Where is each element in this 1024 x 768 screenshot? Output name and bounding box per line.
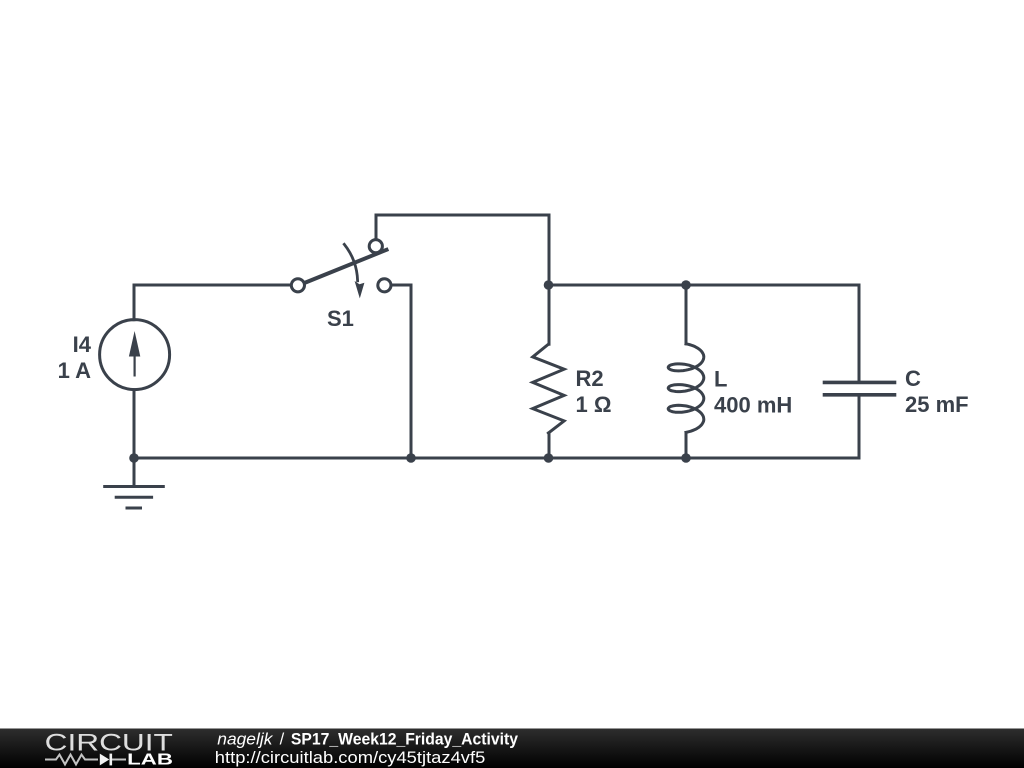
- junction node L bottom: [681, 453, 691, 463]
- junction node switch branch bottom: [406, 453, 416, 463]
- svg-text:/: /: [280, 731, 285, 749]
- logo diode: [100, 754, 110, 766]
- svg-text:S1: S1: [327, 306, 354, 331]
- ground symbol: [105, 458, 164, 508]
- svg-text:I4: I4: [73, 332, 92, 357]
- wire L top stub: [685, 285, 688, 344]
- wire R2 bottom stub: [548, 433, 551, 458]
- svg-text:http://circuitlab.com/cy45tjta: http://circuitlab.com/cy45tjtaz4vf5: [215, 749, 486, 767]
- resistor R2 zigzag: [533, 344, 564, 433]
- svg-text:C: C: [905, 366, 921, 391]
- wire top rail y285 from node A to capacitor: [549, 285, 859, 382]
- svg-text:25 mF: 25 mF: [905, 392, 969, 417]
- switch S1 actuation arc: [344, 244, 357, 280]
- svg-text:400 mH: 400 mH: [714, 393, 792, 418]
- svg-text:SP17_Week12_Friday_Activity: SP17_Week12_Friday_Activity: [291, 731, 519, 749]
- wire left rail from I4 top to switch common: [134, 285, 291, 320]
- svg-text:nageljk: nageljk: [217, 731, 273, 749]
- wire bottom rail: [134, 457, 859, 460]
- svg-text:R2: R2: [576, 366, 604, 391]
- svg-text:1 Ω: 1 Ω: [576, 392, 612, 417]
- switch S1 arrow head: [355, 281, 365, 298]
- junction node at switch branch / R2 top: [544, 280, 554, 290]
- switch S1 blade: [303, 250, 386, 284]
- junction node L top: [681, 280, 691, 290]
- capacitor C plates: [825, 382, 895, 394]
- wire capacitor bottom stub: [858, 395, 861, 458]
- switch S1 terminal top: [369, 240, 382, 253]
- logo resistor zigzag: [45, 755, 98, 765]
- svg-text:1 A: 1 A: [58, 358, 92, 383]
- switch S1 terminal lower right: [378, 279, 391, 292]
- junction node R2 bottom: [544, 453, 554, 463]
- current source I4 arrow: [129, 331, 140, 377]
- svg-text:LAB: LAB: [127, 751, 173, 768]
- inductor L coil: [668, 344, 704, 433]
- switch S1 terminal common: [291, 279, 304, 292]
- wire I4 bottom to ground node: [133, 390, 136, 458]
- current source I4 circle: [100, 320, 170, 390]
- wire R2 top stub: [548, 285, 551, 344]
- junction node ground: [129, 453, 139, 463]
- svg-text:L: L: [714, 367, 727, 392]
- wire L bottom stub: [685, 433, 688, 458]
- wire switch top terminal up and over to node at x549: [376, 215, 549, 285]
- wire from switch lower-right terminal down to bottom rail: [391, 285, 411, 458]
